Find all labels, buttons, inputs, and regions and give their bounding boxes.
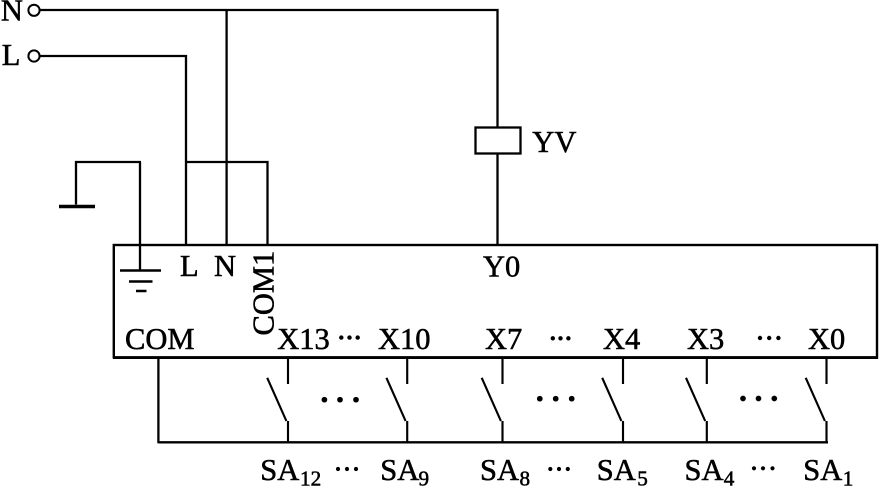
svg-text:SA: SA <box>597 453 636 487</box>
svg-text:X13: X13 <box>277 322 330 356</box>
svg-text:X0: X0 <box>808 322 845 356</box>
svg-text:N: N <box>1 0 23 27</box>
svg-text:SA: SA <box>803 453 842 487</box>
svg-text:X10: X10 <box>378 322 431 356</box>
svg-text:SA: SA <box>380 453 419 487</box>
svg-text:L: L <box>2 38 21 72</box>
svg-text:X7: X7 <box>485 322 522 356</box>
svg-text:N: N <box>214 249 236 283</box>
svg-text:COM1: COM1 <box>247 251 281 336</box>
svg-text:5: 5 <box>637 467 648 487</box>
svg-text:9: 9 <box>419 467 430 487</box>
svg-text:SA: SA <box>260 453 299 487</box>
svg-text:Y0: Y0 <box>483 250 520 284</box>
svg-text:SA: SA <box>685 453 724 487</box>
svg-text:1: 1 <box>843 467 854 487</box>
svg-text:8: 8 <box>520 467 531 487</box>
svg-text:X4: X4 <box>603 322 640 356</box>
svg-text:COM: COM <box>125 322 195 356</box>
svg-text:X3: X3 <box>687 322 724 356</box>
svg-text:L: L <box>180 249 199 283</box>
svg-text:4: 4 <box>724 467 735 487</box>
svg-text:12: 12 <box>300 467 321 487</box>
svg-text:SA: SA <box>480 453 519 487</box>
svg-text:YV: YV <box>532 125 576 159</box>
